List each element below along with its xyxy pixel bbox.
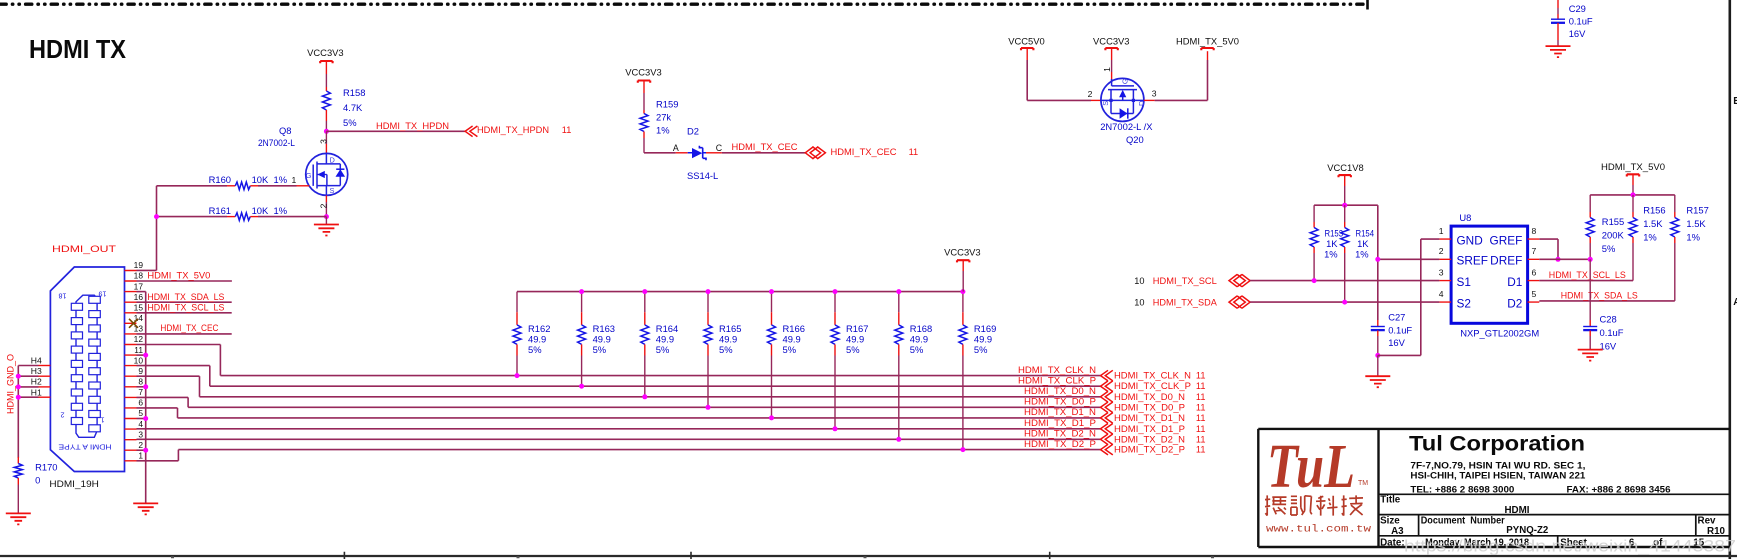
ground (C28) [1578,350,1603,361]
ground (C27) [1377,355,1379,376]
wire cathode to off-page [706,152,722,154]
svg-text:2: 2 [1439,246,1444,256]
svg-text:Document Number: Document Number [1421,516,1505,527]
svg-text:H1: H1 [31,387,42,397]
connector pin stubs [125,271,137,461]
svg-text:7F-7,NO.79, HSIN TAI WU RD. SE: 7F-7,NO.79, HSIN TAI WU RD. SEC 1, [1410,461,1585,471]
svg-text:D: D [330,155,335,164]
svg-text:VCC5V0: VCC5V0 [1008,35,1044,46]
svg-text:S: S [1101,101,1110,106]
ground (R170) [6,513,31,524]
svg-text:HDMI_TX_HPDN: HDMI_TX_HPDN [376,121,449,131]
border end tick [1366,0,1369,10]
junction H2 [16,384,21,389]
svg-text:D: D [1137,101,1146,106]
svg-text:U8: U8 [1459,212,1471,223]
svg-text:1: 1 [138,451,143,461]
wire VCC3V3 to bus [962,260,964,271]
svg-text:1%: 1% [1355,249,1369,260]
svg-text:1: 1 [1439,226,1444,236]
svg-text:C28: C28 [1600,314,1617,325]
svg-text:6: 6 [138,398,143,408]
wire Q8 drain (pin 3) [325,131,327,144]
svg-text:R157: R157 [1686,204,1708,215]
resistor R159 27k [643,110,645,114]
wire VCC5V0 to Q20 source [1026,48,1028,60]
wire HDMI_TX_D2_P [137,460,179,462]
svg-text:5: 5 [138,408,143,418]
svg-text:18: 18 [134,271,144,281]
svg-text:D2: D2 [687,126,699,137]
resistor R168 49.9 [898,292,900,313]
svg-text:1.5K: 1.5K [1643,218,1663,229]
svg-text:HDMI_TX_D1_P: HDMI_TX_D1_P [1024,418,1096,428]
svg-text:GND: GND [1457,233,1483,247]
svg-text:R158: R158 [343,87,365,98]
svg-text:R170: R170 [35,462,57,473]
junction R154 / SDA [1342,300,1347,305]
svg-text:1%: 1% [656,125,670,136]
wire HDMI_TX_D2_N [137,438,1101,440]
svg-text:HDMI_TX_D1_P: HDMI_TX_D1_P [1114,424,1185,434]
svg-text:HDMI_OUT: HDMI_OUT [52,243,116,254]
title block frame [1258,429,1730,547]
svg-text:HDMI_TX_5V0: HDMI_TX_5V0 [147,271,210,281]
svg-text:10K 1%: 10K 1% [252,174,287,185]
resistor R154 1K [1344,205,1346,222]
svg-text:5%: 5% [656,344,670,355]
svg-text:C27: C27 [1388,311,1405,322]
junction bus R165 [706,289,711,294]
wire HDMI_TX_SDA_LS (U8 D2) [1539,300,1675,302]
junction shield pin11 [143,353,148,358]
connector pin contacts [71,303,82,310]
svg-text:0.1uF: 0.1uF [1388,324,1412,335]
svg-text:6: 6 [1532,267,1537,277]
svg-text:19: 19 [134,260,144,270]
resistor R161 10K [157,216,228,218]
ground (Q8 source) [325,217,327,225]
svg-text:17: 17 [134,281,144,291]
off-page connector HDMI_TX_HPDN [465,126,477,137]
svg-text:27k: 27k [656,112,671,123]
svg-text:Date:: Date: [1380,537,1405,548]
junction R167 to HDMI_TX_D1_P [833,426,838,431]
off-page connector HDMI_TX_D1_P [1101,424,1113,435]
junction R166 to HDMI_TX_D1_N [769,415,774,420]
svg-text:5%: 5% [846,344,860,355]
svg-text:11: 11 [1196,413,1206,423]
off-page connector HDMI_TX_CEC (bidir) [805,147,825,159]
svg-text:2: 2 [319,203,329,208]
svg-text:49.9: 49.9 [593,334,611,345]
svg-text:5%: 5% [974,344,988,355]
wire HDMI_TX_CLK_P [137,365,210,367]
bottom zone ticks [344,552,1049,559]
wire HDMI_TX_D1_N [137,407,178,409]
svg-text:R169: R169 [974,323,996,334]
junction GREF/DREF [1556,257,1561,262]
sheet bottom border [0,555,1737,557]
svg-text:2N7002-L: 2N7002-L [258,137,295,148]
off-page connector HDMI_TX_D0_N [1101,391,1113,402]
svg-text:R155: R155 [1602,216,1624,227]
svg-text:7: 7 [1532,246,1537,256]
wire GND net to U8 pin1 [1378,354,1421,356]
resistor R169 49.9 [962,292,964,313]
junction R164 to HDMI_TX_D0_N [642,394,647,399]
svg-text:11: 11 [909,147,919,157]
junction R153 / SCL [1312,278,1317,283]
svg-text:C: C [716,143,723,153]
svg-text:HDMI_TX_SDA_LS: HDMI_TX_SDA_LS [1561,290,1638,300]
svg-text:5%: 5% [783,344,797,355]
resistor R156 1.5K [1632,195,1634,212]
svg-text:DREF: DREF [1490,254,1522,268]
svg-text:R166: R166 [783,323,805,334]
junction R162 to HDMI_TX_CLK_N [515,373,520,378]
svg-text:16V: 16V [1569,28,1586,39]
svg-text:VCC3V3: VCC3V3 [944,247,980,258]
svg-text:R156: R156 [1643,204,1665,215]
svg-text:H3: H3 [31,366,42,376]
bottom zone numeral remnants [171,556,1214,558]
svg-text:2: 2 [61,411,65,420]
svg-text:1: 1 [292,175,297,185]
svg-text:VCC3V3: VCC3V3 [307,47,343,58]
junction bus R164 [642,289,647,294]
svg-text:8: 8 [138,377,143,387]
svg-text:0.1uF: 0.1uF [1569,16,1593,27]
junction bus R166 [769,289,774,294]
svg-text:HDMI_TX_D2_N: HDMI_TX_D2_N [1114,434,1185,444]
resistor R170 0 [17,457,19,464]
transistor Q8 2N7002-L [306,153,348,195]
svg-text:5%: 5% [593,344,607,355]
junction shield pin2 [143,448,148,453]
svg-text:VCC1V8: VCC1V8 [1327,162,1363,173]
svg-text:5%: 5% [910,344,924,355]
wire VCC1V8 bus [1314,204,1378,206]
junction R165 to HDMI_TX_D0_P [706,405,711,410]
svg-text:10: 10 [1134,276,1144,286]
svg-text:R159: R159 [656,99,678,110]
svg-text:49.9: 49.9 [656,334,674,345]
svg-text:R164: R164 [656,323,678,334]
svg-text:D2: D2 [1507,296,1522,310]
wire pin16 HDMI_TX_SDA_LS [137,301,232,303]
off-page connector HDMI_TX_CLK_P [1101,381,1113,392]
junction R168 to HDMI_TX_D2_N [896,437,901,442]
svg-text:1.5K: 1.5K [1686,218,1706,229]
svg-text:Q8: Q8 [279,125,292,136]
svg-text:H2: H2 [31,377,42,387]
junction bus R168 [896,289,901,294]
wire pin18 HDMI_TX_5V0 [137,280,232,282]
svg-text:Rev: Rev [1698,516,1717,527]
resistor R164 49.9 [644,292,646,313]
wire pin13 HDMI_TX_CEC [137,333,232,335]
svg-text:1: 1 [1102,67,1112,72]
svg-text:R160: R160 [209,174,231,185]
wire Q20 drain (pin 3) to HDMI_TX_5V0 [1144,99,1155,101]
wire DREF [1539,258,1590,260]
svg-text:11: 11 [1196,371,1206,381]
svg-text:3: 3 [1152,89,1157,99]
svg-text:HDMI_TX_D0_N: HDMI_TX_D0_N [1024,386,1096,396]
wire VCC1V8 to bus [1344,175,1346,186]
junction Q8 source / R161 [324,214,329,219]
svg-text:HDMI_TX_D0_P: HDMI_TX_D0_P [1024,397,1096,407]
svg-text:HDMI_TX_CLK_P: HDMI_TX_CLK_P [1018,375,1096,385]
wire VCC3V3 to Q20 gate [1111,48,1113,60]
svg-text:HDMI_TX_D2_N: HDMI_TX_D2_N [1024,429,1096,439]
svg-text:19: 19 [99,290,107,299]
svg-text:1: 1 [101,416,105,425]
svg-text:2N7002-L /X: 2N7002-L /X [1100,121,1153,132]
svg-text:Q20: Q20 [1126,134,1144,145]
sheet top dash-dot border [0,2,1367,5]
svg-text:11: 11 [1196,424,1206,434]
wire HDMI_TX_D1_P [137,428,1101,430]
wire HDMI_TX_D0_N [137,375,200,377]
svg-text:D1: D1 [1507,275,1522,289]
svg-text:SREF: SREF [1457,254,1488,268]
svg-text:HDMI_TX_5V0: HDMI_TX_5V0 [1176,35,1239,46]
svg-text:11: 11 [1196,392,1206,402]
off-page connector HDMI_TX_D0_P [1101,402,1113,413]
svg-text:49.9: 49.9 [528,334,546,345]
svg-text:49.9: 49.9 [910,334,928,345]
junction 5V bus [1631,192,1636,197]
svg-text:HDMI_TX_CEC: HDMI_TX_CEC [831,147,897,157]
svg-text:HDMI_TX_D1_N: HDMI_TX_D1_N [1114,413,1185,423]
svg-text:10K 1%: 10K 1% [252,205,287,216]
svg-text:7: 7 [138,387,143,397]
wire HDMI_TX_5V0 to bus [1632,174,1634,185]
wire SREF / C27 column [1377,205,1379,320]
svg-text:HDMI_TX_CLK_P: HDMI_TX_CLK_P [1114,381,1191,391]
resistor R166 49.9 [771,292,773,313]
svg-text:A3: A3 [1391,526,1404,537]
title block rules [1379,494,1730,547]
svg-text:HDMI_TX_SDA_LS: HDMI_TX_SDA_LS [147,292,224,302]
wire termination top bus [517,291,963,293]
svg-text:11: 11 [1196,445,1206,455]
svg-text:R154: R154 [1356,227,1375,238]
no-connect X (pin14) [129,319,138,328]
wire HDMI_TX_SCL_LS (U8 D1) [1539,280,1633,282]
svg-text:HDMI_TX_SCL_LS: HDMI_TX_SCL_LS [147,302,224,312]
svg-text:HSI-CHIH, TAIPEI HSIEN, TAIWAN: HSI-CHIH, TAIPEI HSIEN, TAIWAN 221 [1410,470,1585,480]
wire VCC3V3 to R159 [643,81,645,94]
svg-text:SS14-L: SS14-L [687,170,718,181]
junction VCC1V8 bus [1342,203,1347,208]
svg-text:5%: 5% [719,344,733,355]
svg-text:1K: 1K [1326,238,1338,249]
U8 pin stubs [1439,239,1539,302]
svg-text:H4: H4 [31,355,42,365]
capacitor C29 0.1uF [1557,0,1559,8]
svg-text:HDMI_TX_D0_N: HDMI_TX_D0_N [1114,392,1185,402]
svg-text:GREF: GREF [1490,233,1523,247]
svg-text:HDMI_GND_O: HDMI_GND_O [6,354,16,414]
wire connector shield ground (pins 17,11,8,5,2) [137,291,146,293]
svg-text:S1: S1 [1457,275,1471,289]
svg-text:HDMI_TX_SDA: HDMI_TX_SDA [1153,298,1218,308]
junction DREF/R155/C28 [1588,257,1593,262]
svg-text:49.9: 49.9 [719,334,737,345]
junction bus R163 [579,289,584,294]
svg-text:200K: 200K [1602,230,1625,241]
wire VCC3V3 to R158 [325,61,327,74]
svg-text:FAX: +886 2 8698 3456: FAX: +886 2 8698 3456 [1567,484,1671,494]
svg-text:S: S [330,186,335,195]
connector J HDMI_OUT body [50,267,124,472]
resistor R155 200K [1589,195,1591,212]
off-page connector HDMI_TX_D2_N [1101,434,1113,445]
capacitor C28 0.1uF [1589,259,1591,320]
svg-text:10: 10 [1134,298,1144,308]
junction HPDN node [324,129,329,134]
svg-text:S2: S2 [1457,296,1471,310]
resistor R163 49.9 [581,292,583,313]
svg-text:5: 5 [1532,289,1537,299]
svg-text:3: 3 [319,139,329,144]
svg-text:R162: R162 [528,323,550,334]
svg-text:R165: R165 [719,323,741,334]
svg-text:HDMI_TX_CLK_N: HDMI_TX_CLK_N [1114,371,1191,381]
svg-text:R168: R168 [910,323,932,334]
svg-text:R167: R167 [846,323,868,334]
svg-text:16: 16 [134,292,144,302]
svg-text:https://blog.csdn.net/weixin_4: https://blog.csdn.net/weixin_41443387 [1404,537,1736,556]
svg-text:HDMI_TX_CLK_N: HDMI_TX_CLK_N [1018,365,1096,375]
off-page connector HDMI_TX_CLK_N [1101,370,1113,381]
svg-text:Tul Corporation: Tul Corporation [1409,432,1585,456]
junction R160/R161 [154,214,159,219]
svg-text:HDMI_TX_HPDN: HDMI_TX_HPDN [477,125,549,135]
wire pin15 HDMI_TX_SCL_LS [137,312,232,314]
resistor R153 1K [1313,205,1315,222]
svg-text:11: 11 [1196,402,1206,412]
svg-text:HDMI_TX_CEC: HDMI_TX_CEC [160,323,218,333]
svg-text:TEL: +886 2 8698 3000: TEL: +886 2 8698 3000 [1410,484,1514,494]
svg-text:49.9: 49.9 [783,334,801,345]
svg-text:HDMI_TX_5V0: HDMI_TX_5V0 [1601,161,1665,172]
junction R163 to HDMI_TX_CLK_P [579,384,584,389]
svg-text:8: 8 [1532,226,1537,236]
off-page connector HDMI_TX_D1_N [1101,413,1113,424]
svg-text:11: 11 [562,125,572,135]
wire HDMI_GND_O [39,365,51,367]
svg-text:16V: 16V [1388,337,1405,348]
svg-text:HDMI_TX_CEC: HDMI_TX_CEC [732,142,798,152]
svg-text:B: B [1733,96,1737,107]
svg-text:1%: 1% [1686,231,1700,242]
resistor R160 10K [157,185,228,187]
svg-text:5%: 5% [343,117,357,128]
resistor R158 4.7K [325,87,327,91]
transistor Q20 2N7002-L [1101,78,1144,121]
svg-text:G: G [1120,78,1129,84]
svg-text:12: 12 [134,334,144,344]
svg-text:9: 9 [138,366,143,376]
svg-text:4: 4 [138,419,143,429]
resistor R157 1.5K [1674,195,1676,212]
svg-text:3: 3 [138,429,143,439]
wire 5V pull-up bus [1590,194,1675,196]
svg-text:VCC3V3: VCC3V3 [1093,35,1129,46]
svg-text:11: 11 [1196,434,1206,444]
svg-text:A: A [673,143,679,153]
svg-text:PYNQ-Z2: PYNQ-Z2 [1506,525,1549,536]
wire Q8 source (pin 2) [325,195,327,202]
svg-text:Size: Size [1380,516,1400,527]
svg-text:HDMI: HDMI [1504,505,1529,516]
connector inner plug outline [76,295,97,437]
svg-text:1%: 1% [1324,249,1338,260]
resistor R165 49.9 [707,292,709,313]
wire CEC row [644,152,676,154]
wire GREF [1539,238,1558,240]
junction H3 [16,374,21,379]
svg-text:G: G [306,171,312,180]
diode D2 SS14-L [688,152,706,154]
svg-text:3: 3 [1439,267,1444,277]
svg-text:HDMI_TX_SCL: HDMI_TX_SCL [1153,276,1217,286]
svg-text:C29: C29 [1569,3,1586,14]
svg-text:5%: 5% [1602,243,1616,254]
svg-text:HDMI_TX_D0_P: HDMI_TX_D0_P [1114,402,1185,412]
junction bus R167 [833,289,838,294]
svg-text:HDMI A TYPE: HDMI A TYPE [59,442,112,451]
svg-text:HDMI_19H: HDMI_19H [49,478,99,489]
svg-text:5%: 5% [528,344,542,355]
svg-text:49.9: 49.9 [846,334,864,345]
off-page connector HDMI_TX_D2_P [1101,444,1113,455]
svg-text:0: 0 [35,475,40,486]
svg-text:4: 4 [1439,289,1444,299]
svg-text:15: 15 [134,302,144,312]
ground (C29) [1557,40,1559,46]
svg-text:18: 18 [59,292,67,301]
svg-text:11: 11 [134,345,143,355]
svg-text:VCC3V3: VCC3V3 [625,67,661,78]
svg-text:0.1uF: 0.1uF [1600,327,1624,338]
junction bus R169 [960,289,965,294]
junction C27 / GND net [1375,353,1380,358]
svg-text:NXP_GTL2002GM: NXP_GTL2002GM [1460,327,1539,338]
capacitor C27 0.1uF [1377,320,1379,326]
junction shield pin5 [143,416,148,421]
svg-text:www.tul.com.tw: www.tul.com.tw [1266,524,1372,536]
wire HDMI_TX_HPDN [326,130,465,132]
svg-text:TM: TM [1358,480,1368,487]
svg-text:1%: 1% [1643,231,1657,242]
svg-text:2: 2 [1088,89,1093,99]
sheet right border [1729,0,1732,559]
resistor R167 49.9 [834,292,836,313]
svg-text:R161: R161 [209,205,231,216]
junction SREF [1375,257,1380,262]
wire HDMI_TX_D0_P [137,396,189,398]
svg-text:11: 11 [1196,381,1206,391]
svg-text:R163: R163 [593,323,615,334]
svg-text:A: A [1733,297,1737,308]
junction shield pin8 [143,384,148,389]
resistor R162 49.9 [516,292,518,313]
